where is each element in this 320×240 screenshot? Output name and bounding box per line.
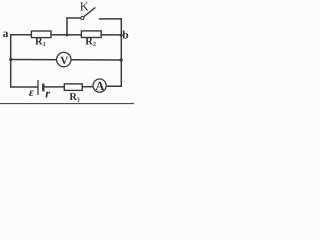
wire: ammeter to right vertical (106, 85, 122, 87)
svg-text:1: 1 (43, 42, 46, 48)
svg-text:a: a (3, 28, 9, 40)
resistor R2 (81, 31, 101, 38)
svg-text:2: 2 (93, 42, 96, 48)
svg-text:K: K (80, 0, 89, 14)
node b junction dot (120, 34, 123, 37)
svg-text:3: 3 (77, 97, 80, 103)
bottom rule line (0, 103, 134, 105)
ammeter A (93, 79, 106, 92)
wire: right vertical (top branch down to bottom line) (120, 18, 122, 87)
junction dot voltmeter left (9, 58, 12, 61)
svg-text:R: R (35, 37, 43, 48)
svg-text:ε: ε (29, 85, 34, 99)
voltmeter V (57, 52, 71, 66)
wire: left vertical (a down to battery line) (10, 34, 12, 88)
switch K contact (81, 16, 84, 19)
wire: switch branch top-right segment (99, 18, 122, 20)
wire: switch branch top-left segment (66, 17, 80, 19)
wire: battery to R3 (44, 86, 64, 88)
svg-text:V: V (60, 55, 68, 67)
svg-text:A: A (95, 79, 104, 93)
wire: main horizontal line a-R1-R2-b (10, 34, 122, 36)
resistor R1 (31, 31, 51, 38)
wire: bottom line (10, 86, 38, 88)
svg-text:R: R (85, 37, 93, 48)
svg-text:r: r (45, 87, 50, 101)
resistor R3 (64, 84, 82, 91)
wire: voltmeter line (11, 59, 122, 62)
switch K lever (84, 7, 95, 16)
junction dot voltmeter right (120, 58, 123, 61)
wire: R3 to ammeter (82, 86, 93, 88)
battery long plate (37, 80, 39, 95)
svg-text:b: b (122, 30, 128, 42)
battery short plate (42, 84, 44, 92)
junction dot between R1 and R2 (66, 33, 69, 36)
wire: switch branch left leg (junction up) (66, 17, 68, 35)
